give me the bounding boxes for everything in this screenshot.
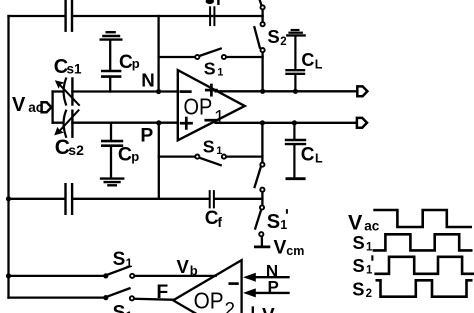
wire node N branch xyxy=(53,90,63,92)
svg-text:S: S xyxy=(267,26,279,47)
wire Vac bus vertical xyxy=(51,92,53,123)
svg-text:OP: OP xyxy=(194,288,224,313)
svg-text:L: L xyxy=(315,151,323,165)
wire OP1 output top xyxy=(216,90,357,92)
terminal D output bottom xyxy=(357,118,367,128)
svg-text:ac: ac xyxy=(28,100,44,115)
svg-text:1: 1 xyxy=(126,309,133,313)
svg-text:V: V xyxy=(274,238,287,259)
switch S2 chain vertical xyxy=(261,9,263,22)
wire F to OP2 apex xyxy=(134,299,175,300)
arrowhead Cs1 xyxy=(55,80,65,89)
wire vertical x158 node P to Cf wire xyxy=(158,123,160,199)
svg-text:S: S xyxy=(267,211,280,233)
switch S1 wire2 blade xyxy=(108,288,130,296)
svg-text:S: S xyxy=(204,59,216,79)
svg-text:p: p xyxy=(131,149,139,164)
wire1 to switch S1 (Vb) xyxy=(9,275,106,277)
capacitor CL top xyxy=(294,36,296,69)
svg-text:S: S xyxy=(353,232,365,253)
op-amp U2 triangle (points left, cut at bottom) xyxy=(174,260,242,313)
op-amp U1 input signs xyxy=(181,90,191,93)
capacitor Cs1 plates xyxy=(64,79,66,105)
svg-text:F: F xyxy=(156,281,168,303)
ground (inverted) above Cp top xyxy=(107,31,115,33)
arrowhead N xyxy=(243,273,256,282)
svg-text:cm: cm xyxy=(286,244,304,258)
svg-text:s2: s2 xyxy=(68,142,84,158)
svg-text:V: V xyxy=(262,306,275,313)
wire Cf bottom horizontal xyxy=(9,198,65,200)
bar terminal below CL bottom xyxy=(287,177,304,180)
svg-text:L: L xyxy=(315,58,323,72)
arrowhead Cs2 xyxy=(54,127,64,135)
svg-text:2: 2 xyxy=(225,299,236,313)
switch terminal open circles xyxy=(130,5,265,300)
switch S1 wire1 blade xyxy=(108,267,130,275)
waveform S1' xyxy=(374,257,474,274)
capacitor C2 top (cut label above) xyxy=(209,7,211,25)
svg-text:1: 1 xyxy=(280,218,287,232)
cut label blob top xyxy=(206,0,214,4)
op-amp U1 output signs xyxy=(206,89,216,92)
capacitor Cs1 arrow xyxy=(58,83,79,105)
terminal D output top xyxy=(357,86,367,96)
wire OP1 output bottom xyxy=(216,122,357,124)
svg-text:S: S xyxy=(113,249,126,270)
svg-text:1: 1 xyxy=(214,107,225,128)
switch S2 blade xyxy=(254,27,259,47)
svg-text:ac: ac xyxy=(364,218,380,233)
op-amp U1 triangle xyxy=(178,70,245,140)
wire S1 top branch xyxy=(159,56,196,58)
svg-text:C: C xyxy=(118,144,132,166)
terminal bar Vcm xyxy=(255,245,269,248)
svg-text:1: 1 xyxy=(216,145,222,157)
svg-text:S: S xyxy=(352,278,364,299)
bottom edge cut marks: stem xyxy=(252,308,254,313)
svg-text:1: 1 xyxy=(217,66,223,78)
capacitor Cf plates xyxy=(209,191,211,207)
ground below Cp bottom xyxy=(101,177,123,179)
capacitor C1 top (series, unlabeled) xyxy=(64,0,66,31)
wire node P branch xyxy=(53,122,63,124)
wire vertical x158 from top wire to node N xyxy=(157,16,159,92)
svg-text:C: C xyxy=(301,50,314,70)
arrowhead P xyxy=(243,288,256,297)
svg-text:V: V xyxy=(177,256,190,277)
arrow N line xyxy=(252,276,289,278)
arrow P line xyxy=(252,292,289,294)
op-amp U2 minus sign xyxy=(230,282,238,285)
svg-text:b: b xyxy=(190,263,198,278)
waveform S2 xyxy=(376,280,473,296)
svg-text:P: P xyxy=(140,125,153,146)
waveform Vac xyxy=(373,210,472,227)
svg-text:s1: s1 xyxy=(67,62,83,77)
svg-text:N: N xyxy=(141,69,155,90)
svg-text:f: f xyxy=(217,214,222,230)
wire S1' chain vertical xyxy=(261,123,263,163)
svg-text:V: V xyxy=(12,94,26,116)
wire2 to switch S1 (F) xyxy=(9,296,106,298)
svg-text:C: C xyxy=(301,145,315,166)
svg-text:1: 1 xyxy=(366,242,373,254)
switch S1 (top) blade xyxy=(199,49,220,56)
svg-text:1: 1 xyxy=(366,264,373,276)
svg-text:V: V xyxy=(348,211,363,235)
svg-text:S: S xyxy=(353,255,365,276)
ground (inverted) above CL top xyxy=(292,29,299,31)
switch stub (cut at top edge) xyxy=(260,0,262,6)
svg-text:1: 1 xyxy=(126,256,133,270)
wire S1 bottom branch xyxy=(159,155,196,157)
switch A blade (unlabeled) xyxy=(255,167,261,187)
svg-text:2: 2 xyxy=(366,288,372,300)
capacitor Cp top stem+plates xyxy=(109,40,111,69)
switch S1 (bottom) blade xyxy=(199,158,220,166)
switch S1' blade xyxy=(255,210,261,229)
capacitor Cp bottom stem+plates xyxy=(110,123,112,140)
svg-text:OP: OP xyxy=(184,93,213,119)
svg-text:2: 2 xyxy=(280,36,286,48)
wire left rail F xyxy=(7,16,9,298)
capacitor C1 bottom plates xyxy=(64,184,66,214)
svg-text:p: p xyxy=(132,56,140,71)
wire to Vcm xyxy=(261,236,263,245)
svg-text:S: S xyxy=(203,137,215,157)
svg-text:S: S xyxy=(113,302,126,313)
capacitor Cs2 arrow xyxy=(58,110,79,132)
waveform S1 xyxy=(373,234,473,250)
wire Vb to OP2 xyxy=(134,275,215,277)
svg-text:P: P xyxy=(268,277,279,296)
capacitor Cs2 plates xyxy=(64,111,66,137)
terminal D input Vac xyxy=(42,102,52,112)
wire top horizontal xyxy=(9,15,66,17)
capacitor CL bottom xyxy=(293,123,295,139)
